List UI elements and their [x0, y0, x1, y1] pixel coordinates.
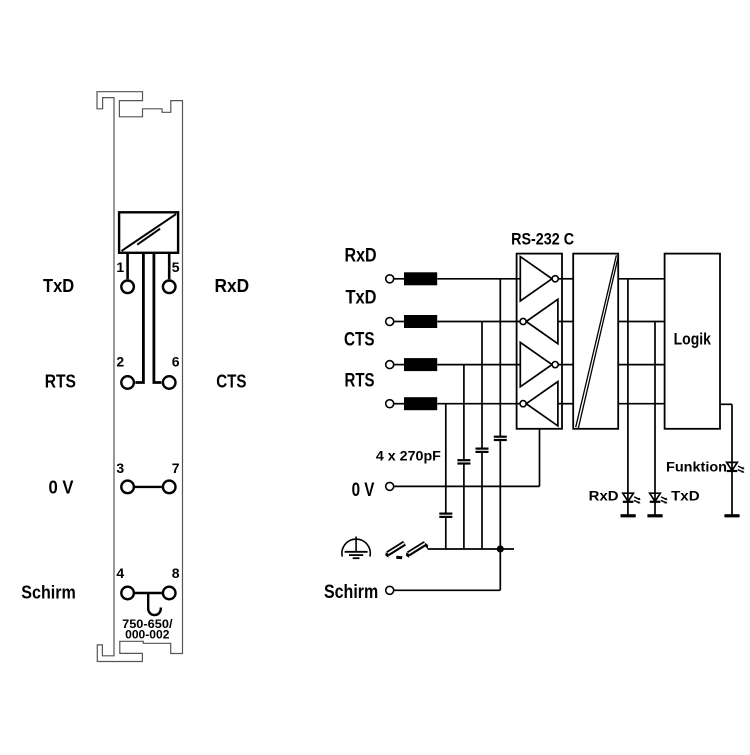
resistor R1	[404, 272, 437, 285]
bubble row1	[552, 276, 558, 282]
pin 1 circle	[121, 281, 134, 294]
LED Funktion termination bar	[724, 514, 739, 517]
pin 1 stub	[126, 253, 129, 279]
bubble row4	[520, 401, 526, 407]
wire TxD LED tap	[654, 322, 656, 516]
pin 7 circle	[163, 481, 176, 494]
wire row3 terminal to R3	[394, 364, 404, 366]
resistor R3	[404, 358, 437, 371]
pin 4 circle	[121, 587, 134, 600]
buffer triangle row3	[520, 342, 552, 386]
svg-text:8: 8	[172, 565, 180, 581]
LED Funktion symbol	[727, 462, 745, 472]
junction node	[497, 545, 504, 552]
wire row4 isolation to logik	[618, 403, 664, 405]
wire row2 isolation to logik	[618, 321, 664, 323]
wire Funktion tap vertical	[731, 404, 733, 516]
pin 3 circle	[121, 481, 134, 494]
terminal RTS circle	[386, 400, 394, 408]
isolation block	[573, 254, 618, 429]
pin 6 circle	[163, 376, 176, 389]
svg-text:2: 2	[116, 353, 124, 369]
wire row2 R2 to RS232	[437, 321, 520, 323]
svg-text:Logik: Logik	[674, 330, 712, 348]
earth symbol	[342, 537, 370, 559]
svg-text:5: 5	[172, 259, 180, 275]
icon diagonal	[122, 214, 177, 251]
capacitor C4 plates	[439, 514, 452, 517]
pin 5 stub	[168, 253, 171, 279]
svg-text:000-002: 000-002	[125, 629, 169, 641]
LED RxD termination bar	[621, 514, 636, 517]
terminal RxD circle	[386, 275, 394, 283]
capacitor tap row4 lower	[445, 517, 447, 549]
terminal 0V circle	[386, 482, 394, 490]
svg-text:CTS: CTS	[344, 330, 375, 351]
terminal Schirm circle	[386, 586, 394, 594]
svg-text:TxD: TxD	[43, 276, 74, 296]
wire row3 isolation to logik	[618, 364, 664, 366]
svg-text:3: 3	[116, 460, 124, 476]
Logik block	[665, 254, 720, 429]
capacitor tap row4 upper	[445, 404, 447, 514]
bubble row2	[520, 318, 526, 324]
capacitor tap row2 upper	[481, 322, 483, 449]
wire Schirm riser	[499, 549, 501, 590]
pin 5 circle	[163, 281, 176, 294]
wire Schirm terminal	[394, 589, 501, 591]
wire row4 RS232 to isolation	[558, 403, 573, 405]
wire row3 RS232 to isolation	[558, 364, 573, 366]
resistor R2	[404, 315, 437, 328]
buffer triangle row1	[520, 257, 552, 301]
capacitor tap row1 lower	[499, 440, 501, 549]
terminal TxD circle	[386, 318, 394, 326]
wire row1 R1 to RS232	[437, 278, 520, 280]
svg-text:CTS: CTS	[216, 372, 246, 392]
wire row4 terminal to R4	[394, 403, 404, 405]
shield hook	[148, 593, 161, 615]
ground rail	[428, 548, 514, 550]
svg-text:RxD: RxD	[215, 276, 250, 296]
svg-text:RxD: RxD	[345, 246, 377, 267]
svg-text:TxD: TxD	[671, 488, 700, 503]
svg-text:RTS: RTS	[45, 372, 76, 392]
wire row2 terminal to R2	[394, 321, 404, 323]
internal line right	[154, 253, 162, 383]
RS-232 block U1	[517, 254, 562, 429]
LED TxD symbol	[650, 493, 668, 503]
svg-text:Schirm: Schirm	[324, 582, 378, 603]
capacitor tap row3 upper	[463, 365, 465, 460]
svg-text:6: 6	[172, 353, 180, 369]
svg-text:RTS: RTS	[345, 371, 375, 392]
buffer triangle row2	[526, 299, 558, 343]
icon short diagonal	[137, 229, 160, 245]
pin 2 circle	[121, 376, 134, 389]
wire row3 R3 to RS232	[437, 364, 520, 366]
capacitor C3 plates	[457, 460, 470, 463]
terminal CTS circle	[386, 361, 394, 369]
svg-text:Funktion: Funktion	[666, 460, 727, 475]
svg-text:0 V: 0 V	[352, 480, 375, 501]
svg-text:0 V: 0 V	[49, 478, 74, 498]
svg-text:1: 1	[116, 259, 124, 275]
wire Funktion tap horizontal	[720, 403, 732, 405]
pin 8 circle	[163, 587, 176, 600]
svg-text:4: 4	[116, 565, 124, 581]
svg-text:Schirm: Schirm	[21, 582, 76, 602]
isolation diagonal 2	[578, 258, 618, 428]
LED RxD symbol	[623, 493, 641, 503]
capacitor tap row1 upper	[499, 279, 501, 437]
wire RxD LED tap	[627, 279, 629, 516]
capacitor C2 plates	[476, 449, 489, 452]
isolation diagonal 1	[576, 255, 617, 427]
buffer triangle row4	[526, 382, 558, 426]
converter icon box	[119, 212, 178, 253]
wire row1 terminal to R1	[394, 278, 404, 280]
wire pins 4-8	[135, 592, 162, 594]
wire pins 3-7	[135, 486, 162, 488]
internal line left	[135, 253, 143, 383]
capacitor tap row2 lower	[481, 452, 483, 549]
wire row2 RS232 to isolation	[558, 321, 573, 323]
wire 0V terminal to corner	[394, 485, 540, 487]
svg-text:7: 7	[172, 460, 180, 476]
capacitor tap row3 lower	[463, 464, 465, 549]
DIN rail symbol	[385, 541, 428, 559]
module outline 750-650 body	[97, 92, 183, 662]
wire row4 R4 to RS232	[437, 403, 520, 405]
svg-text:RxD: RxD	[589, 488, 619, 503]
wire row1 isolation to logik	[618, 278, 664, 280]
wire RS232 bottom tap	[539, 429, 541, 487]
capacitor C1 plates	[494, 437, 507, 440]
bubble row3	[552, 362, 558, 368]
wire row1 RS232 to isolation	[558, 278, 573, 280]
svg-text:4 x 270pF: 4 x 270pF	[376, 449, 441, 464]
svg-text:TxD: TxD	[346, 288, 377, 309]
LED TxD termination bar	[647, 514, 662, 517]
resistor R4	[404, 397, 437, 410]
svg-text:RS-232 C: RS-232 C	[511, 231, 574, 249]
